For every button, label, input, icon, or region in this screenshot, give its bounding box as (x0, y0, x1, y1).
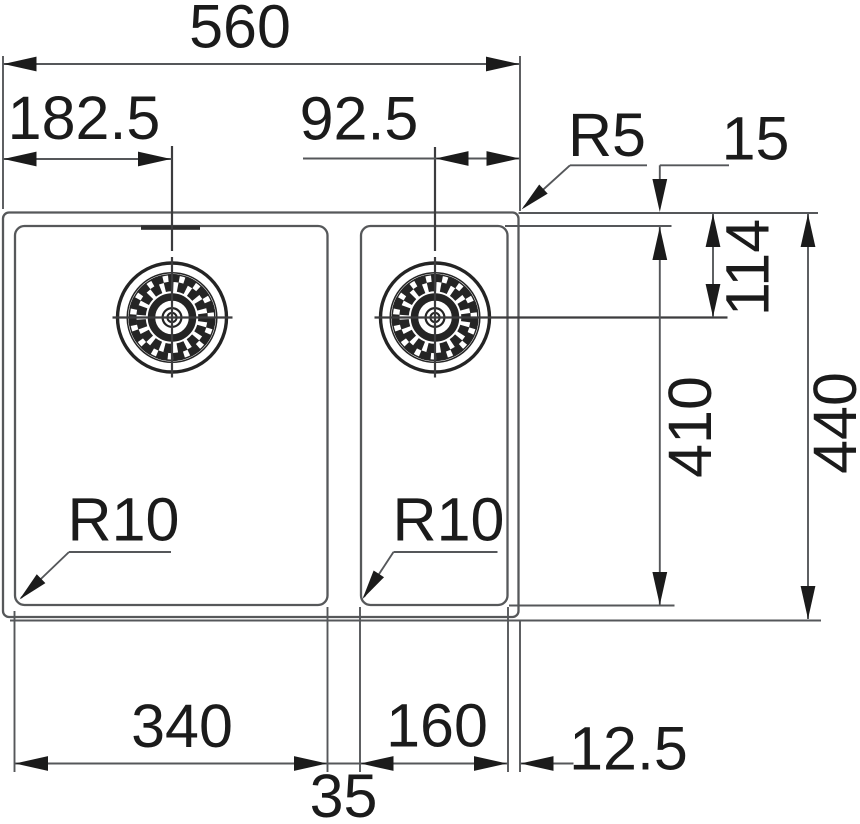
dimension 560 left arrow (4, 57, 37, 72)
dimension 340 right arrow (294, 756, 327, 771)
sink outer outline (3, 213, 519, 618)
dimension 15 underline (660, 164, 729, 166)
right drain strainer (381, 263, 490, 372)
dimension 182.5 left arrow (4, 152, 37, 167)
dimension 440 up arrow (801, 214, 816, 247)
dimension 114 line (712, 214, 714, 317)
leader R5 diagonal (524, 165, 570, 207)
dimension 12.5 arrow (521, 756, 554, 771)
svg-text:R10: R10 (68, 486, 180, 554)
bottom extension line x520 (519, 620, 521, 772)
left bowl outline (15, 226, 328, 605)
svg-text:R5: R5 (568, 101, 646, 169)
svg-text:15: 15 (722, 105, 790, 173)
sink top extension line (519, 212, 819, 214)
leader R10 left arrowhead (15, 574, 45, 604)
leader R10 left underline (69, 551, 171, 553)
bottom extension line x327.5 (327, 607, 329, 772)
dimension 440 line (807, 214, 809, 619)
bowl bottom extension line (509, 605, 675, 607)
svg-text:92.5: 92.5 (300, 85, 419, 153)
left drain horizontal centerline (113, 316, 233, 318)
svg-text:182.5: 182.5 (8, 84, 161, 152)
dimension 560 right arrow (486, 57, 519, 72)
dimension 114 down arrow (706, 284, 721, 317)
bowl top extension line (505, 225, 672, 227)
svg-text:410: 410 (656, 376, 724, 478)
dimension 160 right arrow (474, 756, 507, 771)
bottom extension line x360 (359, 607, 361, 772)
dimension 12.5 tail line (520, 763, 574, 765)
dimension 92.5 line (303, 158, 520, 160)
leader R10 right underline (394, 551, 498, 553)
leader R10 right diagonal (364, 552, 394, 597)
svg-text:560: 560 (189, 0, 291, 61)
svg-text:160: 160 (386, 692, 488, 760)
dimension 114 up arrow (706, 214, 721, 247)
dimension 440 down arrow (801, 586, 816, 619)
right drain horizontal centerline and 114 extension (375, 316, 728, 318)
dimension 15 down arrow (652, 179, 667, 212)
right bowl outline (361, 226, 508, 605)
dimension 410 line (659, 227, 661, 605)
dimension 15 stub (659, 165, 661, 182)
right drain vertical centerline (434, 147, 436, 378)
extension line left edge (2, 56, 4, 209)
dimension 182.5 right arrow (138, 152, 171, 167)
left drain strainer (118, 263, 227, 372)
dimension 560 line (3, 63, 520, 65)
overflow tab on left bowl top edge (141, 225, 200, 229)
dimension 340 left arrow (15, 756, 48, 771)
sink bottom extension line (10, 620, 821, 622)
bottom extension line x508 (507, 607, 509, 772)
dimension 92.5 left arrow (436, 151, 469, 166)
svg-text:114: 114 (714, 219, 782, 316)
dimension 182.5 line (3, 158, 172, 160)
dimension 160 left arrow (361, 756, 394, 771)
dimension 410 up arrow (652, 227, 667, 260)
extension line right edge (519, 56, 521, 211)
leader R5 arrowhead (517, 185, 547, 215)
svg-text:340: 340 (131, 692, 233, 760)
dimension 410 down arrow (652, 572, 667, 605)
leader R10 left diagonal (21, 552, 69, 598)
leader R5 underline (570, 164, 647, 166)
svg-text:R10: R10 (393, 486, 505, 554)
left drain vertical centerline (171, 146, 173, 378)
svg-text:440: 440 (801, 372, 860, 474)
leader R10 right arrowhead (357, 570, 384, 602)
bottom extension line x14.5 (14, 611, 16, 772)
bottom dimension line (15, 763, 508, 765)
dimension 92.5 right arrow (487, 151, 520, 166)
svg-text:12.5: 12.5 (569, 715, 688, 783)
svg-text:35: 35 (310, 762, 378, 824)
